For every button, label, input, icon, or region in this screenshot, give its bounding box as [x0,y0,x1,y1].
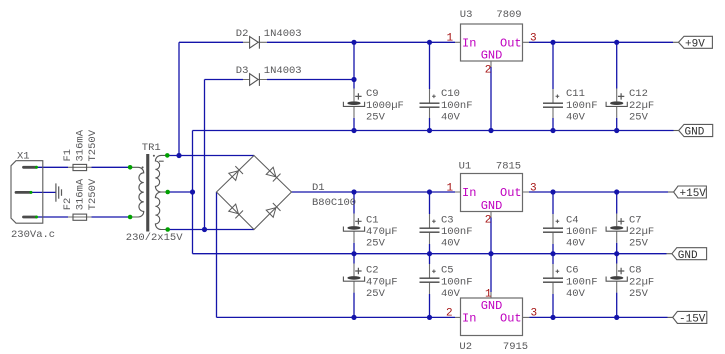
svg-text:1: 1 [447,182,454,194]
svg-text:U1: U1 [459,160,472,172]
node C12 bottom on ground rail [614,128,619,133]
node C6 bottom on -15V line [550,315,555,320]
svg-text:In: In [462,312,476,326]
wire C2 column upper [353,254,355,264]
capacitor C6 [543,264,598,300]
wire C10 column lower [429,118,431,131]
svg-text:22µF: 22µF [629,100,654,112]
wire D3 line left segment [205,79,244,81]
D1 diamond outline [217,156,292,230]
wire riser x179 up to D2 line [178,42,180,155]
svg-text:25V: 25V [366,238,386,250]
svg-text:C6: C6 [566,265,579,277]
wire fuse F1 to TR1 primary top [92,166,131,168]
wire X1 pin3 to fuse F2 [30,216,68,218]
svg-text:T250V: T250V [87,178,99,210]
node C1 top on +15V raw rail [351,189,356,194]
diode D2 [236,28,302,49]
earth ground [56,183,62,201]
TR1 pin dots [128,153,170,232]
svg-text:-15V: -15V [679,314,706,326]
svg-text:Out: Out [500,186,522,200]
node C12 top on +9V line [614,40,619,45]
svg-text:D2: D2 [236,28,249,40]
svg-text:GND: GND [685,127,705,139]
svg-text:C11: C11 [566,88,585,100]
svg-text:3: 3 [530,33,537,45]
svg-text:7815: 7815 [496,160,521,172]
svg-text:T250V: T250V [87,129,99,161]
svg-text:C10: C10 [441,88,460,100]
node C11 bottom on ground rail [550,128,555,133]
svg-text:230Va.c: 230Va.c [11,229,55,241]
svg-text:D1: D1 [312,182,325,194]
node D2 output / C9 top [351,40,356,45]
wire -15V raw rail [217,316,456,318]
svg-text:40V: 40V [566,238,586,250]
connector X1 [11,151,55,241]
svg-text:C9: C9 [366,88,379,100]
capacitor C5 [420,264,473,300]
node C4/C6 on middle ground rail [550,251,555,256]
svg-text:230/2x15V: 230/2x15V [126,232,183,244]
svg-text:In: In [462,186,476,200]
D1 diode bottom-left [228,204,243,219]
svg-text:7809: 7809 [496,9,521,21]
regulator U1 7815 [447,160,537,226]
node D3 output joins C9 column [351,77,356,82]
svg-text:2: 2 [485,65,492,77]
svg-text:316mA: 316mA [75,178,87,210]
D1 diode bottom-right [266,203,281,218]
svg-text:Out: Out [500,36,522,50]
svg-text:1: 1 [485,288,492,300]
wire GND left vertical [192,131,194,254]
D1 diode top-left [228,166,243,181]
wire U3 Out to +9V flag [529,41,673,43]
svg-text:100nF: 100nF [566,100,598,112]
regulator U2 7915 [446,288,537,352]
node C11 top on +9V line [550,40,555,45]
svg-text:+15V: +15V [680,188,707,200]
svg-text:22µF: 22µF [629,276,654,288]
svg-text:25V: 25V [366,288,386,300]
svg-text:40V: 40V [566,111,586,123]
capacitor C12 [606,88,654,123]
wire TR1 top tap to bridge top corner, with D2 branch riser [167,155,254,157]
svg-text:C7: C7 [629,214,642,226]
regulator U3 7809 [447,9,537,77]
svg-text:7915: 7915 [503,341,528,353]
TR1 secondary winding lower [155,192,167,230]
wire C1 column lower [353,243,355,254]
node C7/C8 on middle ground rail [614,251,619,256]
svg-text:In: In [462,36,476,50]
svg-text:1000µF: 1000µF [366,100,404,112]
TR1 primary polarity dot [142,166,144,168]
capacitor C9 [343,88,403,123]
svg-text:F2: F2 [62,198,74,211]
svg-text:Out: Out [500,312,522,326]
capacitor C11 [543,88,598,123]
net flag +9V [673,36,712,50]
svg-text:C5: C5 [441,265,454,277]
svg-text:3: 3 [531,308,538,320]
svg-text:25V: 25V [629,288,649,300]
svg-text:100nF: 100nF [441,100,473,112]
wire middle ground rail [193,253,667,255]
wire X1 pin1 to fuse F1 [30,166,68,168]
wire bridge right corner to U1 In [292,191,456,193]
svg-text:22µF: 22µF [629,226,654,238]
wire C9 column lower [353,118,355,131]
wire X1 pin2 to earth [31,191,56,193]
wire C6 column upper [552,254,554,264]
node C4 top on +15V line [550,189,555,194]
wire C4 column upper [552,192,554,214]
svg-text:GND: GND [678,250,698,262]
node U3 GND on ground rail [488,128,493,133]
TR1 secondary minus mark [159,160,164,162]
net flag -15V [668,311,707,325]
node C1/C2 on middle ground rail [351,251,356,256]
fuse F2 [62,178,99,220]
svg-text:F1: F1 [62,149,74,162]
wire C11 column upper [552,42,554,89]
capacitor C7 [606,214,654,250]
D1 diode top-right [266,167,281,182]
TR1 secondary winding upper [155,155,167,192]
svg-text:C1: C1 [366,214,379,226]
svg-text:GND: GND [481,199,503,213]
svg-text:40V: 40V [566,288,586,300]
svg-text:470µF: 470µF [366,226,398,238]
wire C5 column upper [429,254,431,264]
svg-text:U3: U3 [460,9,473,21]
wire C7 column lower [616,243,618,254]
svg-text:40V: 40V [441,288,461,300]
svg-text:C4: C4 [566,214,579,226]
TR1 primary winding [130,167,144,217]
svg-text:U2: U2 [459,341,472,353]
wire C11 column lower [552,118,554,131]
wire C6 column lower [552,294,554,317]
svg-text:1: 1 [447,33,454,45]
svg-text:100nF: 100nF [566,226,598,238]
node C9 bottom on ground rail [351,128,356,133]
wire C9 column upper [353,42,355,88]
svg-text:C12: C12 [629,88,648,100]
wire TR1 middle tap to GND vertical [168,191,193,193]
wire D3 output to C9 column [267,79,354,81]
node C3 top on +15V raw rail [427,189,432,194]
capacitor C1 [343,214,397,250]
node C10 bottom on ground rail [427,128,432,133]
diode D3 [236,65,302,86]
svg-text:TR1: TR1 [142,142,161,154]
svg-text:B80C100: B80C100 [312,197,356,209]
capacitor C4 [543,214,598,250]
wire C10 column upper [429,42,431,89]
wire C3 column lower [429,244,431,254]
wire C8 column lower [616,293,618,318]
wire C8 column upper [616,254,618,264]
capacitor C10 [420,88,473,123]
wire U2 GND pin from middle ground rail [490,254,492,292]
svg-text:X1: X1 [17,151,30,163]
node U1/U2 GND on middle ground rail [488,251,493,256]
capacitor C8 [606,264,654,300]
svg-text:25V: 25V [366,111,386,123]
svg-text:40V: 40V [441,238,461,250]
wire C3 column upper [429,192,431,214]
svg-text:C8: C8 [629,265,642,277]
node C8 bottom on -15V line [614,315,619,320]
svg-text:470µF: 470µF [366,276,398,288]
node C5 bottom on -15V raw rail [427,315,432,320]
transformer TR1 [126,142,183,244]
wire C4 column lower [552,244,554,254]
wire C7 column upper [616,192,618,214]
wire TR1 bottom tap to bridge bottom corner [168,229,254,231]
svg-text:C2: C2 [366,265,379,277]
bridge rectifier D1 [217,156,357,230]
svg-text:+9V: +9V [685,39,705,51]
svg-text:40V: 40V [441,111,461,123]
wire C12 column lower [616,118,618,131]
svg-text:25V: 25V [629,111,649,123]
net flag GND top [674,124,713,138]
node D2 branch on top tap wire [176,153,181,158]
svg-text:316mA: 316mA [75,129,87,161]
wire U2 Out to -15V flag [530,316,668,318]
wire D2 output to U3 In [267,41,455,43]
TR1 core [146,154,149,232]
svg-text:100nF: 100nF [441,276,473,288]
node D3 branch on bottom tap wire [202,227,207,232]
wire bridge left corner down to -15V raw rail [216,192,218,317]
node middle tap to ground vertical [190,189,195,194]
wire U1 GND pin to middle ground rail [490,218,492,254]
node C7 top on +15V line [614,189,619,194]
svg-text:1N4003: 1N4003 [264,65,302,77]
wire D2 line left segment [179,41,243,43]
wire C2 column lower [353,293,355,318]
svg-text:GND: GND [481,48,503,62]
wire U3 GND pin to ground rail [490,67,492,131]
svg-text:C3: C3 [441,214,454,226]
wire top ground rail [193,130,674,132]
svg-text:1N4003: 1N4003 [264,28,302,40]
svg-text:25V: 25V [629,238,649,250]
wire fuse F2 to TR1 primary bottom [92,216,131,218]
svg-text:D3: D3 [236,65,249,77]
wire C1 column upper [353,192,355,214]
svg-text:2: 2 [446,308,453,320]
svg-text:100nF: 100nF [441,226,473,238]
fuse F1 [62,129,99,170]
svg-text:3: 3 [530,182,537,194]
TR1 secondary polarity dot [153,155,155,157]
svg-text:100nF: 100nF [566,276,598,288]
wire C12 column upper [616,42,618,88]
capacitor C2 [343,264,397,300]
node C3/C5 on middle ground rail [427,251,432,256]
node C10 top on 9V raw line [427,40,432,45]
node C2 bottom on -15V raw rail [351,315,356,320]
capacitor C3 [420,214,473,250]
wire U1 Out to +15V flag [529,191,668,193]
svg-text:2: 2 [485,214,492,226]
net flag GND middle [667,248,707,262]
wire riser x204.5 from bottom tap up to D3 line [204,80,206,230]
wire C5 column lower [429,294,431,317]
net flag +15V [668,186,706,200]
